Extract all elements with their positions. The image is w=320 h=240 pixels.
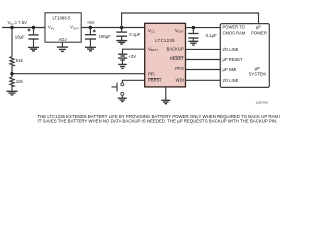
svg-text:CMOS RAM: CMOS RAM [223, 30, 246, 35]
svg-text:I/O LINE: I/O LINE [223, 78, 239, 83]
note caption line 2 [38, 119, 278, 124]
svg-text:VBATT: VBATT [148, 47, 158, 53]
note caption line 1 [38, 114, 292, 119]
capacitor C3 0.1uF [116, 28, 140, 41]
svg-text:VIN ≥ 7.5V: VIN ≥ 7.5V [8, 20, 28, 26]
svg-text:51k: 51k [16, 58, 24, 63]
svg-text:POWER: POWER [251, 30, 267, 35]
svg-text:VOUT: VOUT [175, 28, 184, 34]
svg-text:VCC: VCC [148, 28, 155, 34]
svg-text:µP: µP [256, 25, 261, 30]
ground for C4 [188, 41, 198, 45]
svg-text:0.1µF: 0.1µF [206, 33, 217, 38]
svg-text:I/O LINE: I/O LINE [223, 47, 239, 52]
resistor R2 10k [10, 77, 24, 88]
svg-text:1235 TA01: 1235 TA01 [256, 101, 269, 105]
node VIN label [8, 20, 28, 26]
regulator U1 LT1086-5 [45, 13, 81, 42]
svg-text:µP RESET: µP RESET [223, 57, 243, 62]
IC U2 LTC1235 [145, 23, 186, 87]
capacitor C1 10uF [15, 28, 39, 48]
resistor R1 51k [10, 57, 24, 67]
ground for S1 [118, 98, 127, 101]
block uP system box [220, 24, 269, 88]
wire: R1 to junction [11, 66, 13, 77]
svg-text:SYSTEM: SYSTEM [249, 72, 267, 77]
wire: divider branch [11, 28, 13, 57]
svg-text:10µF: 10µF [15, 34, 25, 39]
wire: R2 to ground [11, 88, 13, 92]
svg-text:VIN: VIN [48, 25, 54, 31]
node junction dot F [10, 72, 13, 75]
ground for C3 [116, 41, 127, 44]
wire: PFI net [12, 73, 145, 75]
svg-text:RESET: RESET [170, 56, 184, 61]
ground for C2 [85, 47, 96, 51]
wire: VOUT to uP box [186, 27, 221, 29]
svg-text:100µF: 100µF [99, 34, 112, 39]
ground for C1 [28, 47, 39, 51]
svg-text:IT SAVES THE BATTERY WHEN NO D: IT SAVES THE BATTERY WHEN NO DATA BACKUP… [38, 119, 278, 124]
svg-text:µP: µP [255, 66, 260, 71]
node junction dot C [89, 26, 92, 29]
wire: BACKUP to uP box [186, 48, 221, 50]
wire: WDI to uP box [186, 79, 221, 81]
ground for ADJ [57, 47, 68, 51]
node junction dot D [120, 26, 123, 29]
svg-text:ADJ: ADJ [59, 37, 67, 42]
wire: chip ground stub [165, 87, 167, 100]
ground for R2 [7, 91, 18, 95]
wire: +5V rail [81, 27, 145, 29]
svg-text:WDI: WDI [176, 78, 184, 83]
pushbutton S1 [112, 80, 145, 98]
svg-text:BACKUP: BACKUP [167, 46, 184, 51]
svg-text:0.1µF: 0.1µF [129, 32, 140, 37]
capacitor C2 100uF [85, 28, 111, 48]
wire: ADJ stub [61, 42, 63, 47]
svg-text:VOUT: VOUT [70, 25, 79, 31]
svg-text:LTC1235: LTC1235 [155, 38, 175, 43]
svg-text:+3V: +3V [128, 54, 136, 59]
svg-text:10k: 10k [16, 79, 24, 84]
svg-text:POWER TO: POWER TO [223, 25, 246, 30]
note figure code [256, 101, 269, 105]
svg-text:+5V: +5V [87, 20, 95, 25]
wire: RESET to uP box [186, 59, 221, 61]
wire: input rail [2, 27, 45, 29]
svg-text:PFO: PFO [175, 66, 184, 71]
node junction dot B [32, 26, 35, 29]
capacitor C4 0.1uF [188, 28, 217, 42]
ground for U2 [161, 100, 170, 103]
svg-text:LT1086-5: LT1086-5 [52, 15, 71, 20]
wire: PFO to uP box [186, 69, 221, 71]
node +5V [87, 20, 95, 25]
ground for B1 [118, 64, 127, 68]
wire: uP power bypass [122, 13, 259, 28]
svg-text:PFI: PFI [148, 72, 155, 77]
node junction dot E [192, 26, 195, 29]
svg-text:µP NMI: µP NMI [223, 67, 237, 72]
node junction dot A [10, 26, 13, 29]
battery B1 +3V [118, 49, 145, 64]
